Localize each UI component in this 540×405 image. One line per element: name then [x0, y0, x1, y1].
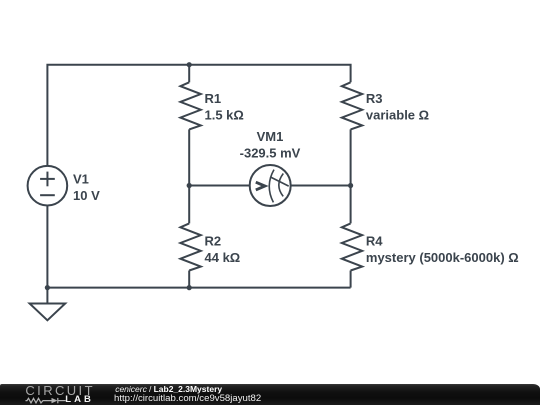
junction: top net at R1: [187, 62, 192, 67]
svg-text:variable Ω: variable Ω: [366, 107, 429, 122]
junction: middle net at R3/R4/VM1: [348, 183, 353, 188]
resistor R3: [342, 82, 362, 129]
junction: bottom net at R2: [187, 285, 192, 290]
credit line 2: [114, 394, 261, 404]
svg-text:V1: V1: [73, 172, 89, 187]
svg-text:44 kΩ: 44 kΩ: [205, 250, 241, 265]
wire middle horizontal left: [189, 185, 250, 187]
credit line 1: [115, 385, 222, 394]
wire bottom net: V1 negative terminal down and across to R4: [47, 206, 350, 288]
resistor R4: [342, 223, 362, 270]
junction: middle net at R1/R2/VM1: [187, 183, 192, 188]
svg-text:mystery (5000k-6000k) Ω: mystery (5000k-6000k) Ω: [366, 250, 519, 265]
ground: [30, 304, 66, 321]
footer bar: [0, 384, 540, 405]
resistor R1: [180, 82, 200, 129]
wire top net: V1 positive terminal up, across top, down to R3: [47, 65, 350, 166]
svg-text:R4: R4: [366, 234, 383, 249]
voltmeter VM1 (circle with &gt; polarity mark, meter scale arcs and needle): [250, 165, 291, 206]
svg-text:-329.5 mV: -329.5 mV: [240, 145, 301, 160]
wire R4 bottom lead: [350, 271, 352, 288]
svg-text:R3: R3: [366, 91, 383, 106]
junction: bottom net at V1/ground: [45, 285, 50, 290]
svg-text:R2: R2: [205, 234, 222, 249]
wire R1 top lead from top-net junction: [188, 65, 190, 83]
svg-text:VM1: VM1: [257, 129, 284, 144]
svg-text:R1: R1: [205, 91, 222, 106]
logo squiggle (resistor zigzag and diode glyph): [25, 396, 70, 405]
wire ground stem: [46, 288, 48, 304]
svg-text:1.5 kΩ: 1.5 kΩ: [205, 107, 244, 122]
wire R2 bottom lead: [188, 271, 190, 288]
wire middle branch R3-R4: [350, 129, 352, 223]
voltage source V1 (circle with plus and minus marks): [28, 166, 68, 206]
logo LAB: [65, 395, 94, 405]
svg-text:10 V: 10 V: [73, 188, 100, 203]
wire middle horizontal right: [291, 185, 351, 187]
wire middle branch R1-R2: [188, 129, 190, 223]
logo CIRCUIT: [25, 384, 95, 397]
resistor R2: [180, 223, 200, 270]
